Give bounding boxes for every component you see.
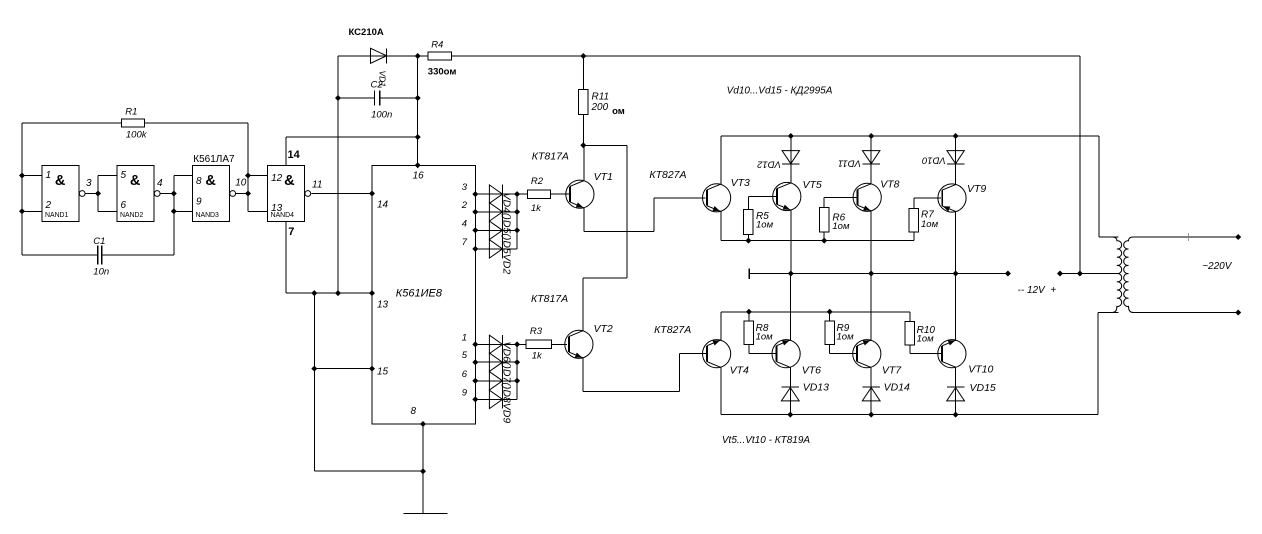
svg-text:&: & (284, 173, 295, 189)
svg-text:VT2: VT2 (594, 323, 613, 335)
wire -12V row with terminal tick (748, 269, 750, 279)
svg-text:1ом: 1ом (832, 221, 850, 232)
svg-text:1k: 1k (532, 350, 543, 361)
svg-text:6: 6 (121, 200, 127, 211)
svg-text:14: 14 (288, 149, 301, 161)
svg-text:VD14: VD14 (884, 382, 910, 394)
wire collector loop to VT2 (583, 144, 627, 146)
svg-text:6: 6 (462, 369, 468, 380)
svg-text:NAND3: NAND3 (196, 212, 220, 219)
svg-text:R11: R11 (592, 92, 610, 103)
svg-text:КТ817А: КТ817А (532, 151, 569, 163)
svg-text:3: 3 (462, 182, 468, 193)
svg-text:10: 10 (235, 178, 247, 189)
svg-text:8: 8 (196, 176, 202, 187)
node pin3 / wire NAND1 out (86, 193, 98, 195)
svg-text:9: 9 (196, 197, 202, 208)
svg-text:10n: 10n (93, 267, 109, 278)
wire IC pin13 ground row (286, 292, 372, 294)
wire VT9 base (914, 197, 941, 199)
transistor VT10 КТ819А (938, 340, 966, 368)
svg-text:15: 15 (377, 367, 389, 378)
wire VT6 collector up (789, 274, 791, 341)
svg-text:5: 5 (121, 170, 127, 181)
svg-text:2: 2 (461, 200, 468, 211)
svg-text:1ом: 1ом (756, 220, 774, 231)
wire secondary to ~220V terminals (1235, 234, 1241, 240)
diode VD10 (947, 151, 964, 164)
node pin10 / wire NAND3 out (236, 193, 248, 195)
svg-text:11: 11 (312, 180, 322, 191)
svg-text:VT5: VT5 (803, 179, 822, 191)
svg-text:~220V: ~220V (1202, 261, 1233, 272)
svg-text:VT4: VT4 (730, 365, 749, 377)
diode VD15 (947, 386, 965, 388)
svg-text:VT1: VT1 (594, 171, 613, 183)
wire VT5 collector (790, 136, 792, 184)
wire base row B (721, 240, 914, 242)
transistor VT3 КТ827А (703, 184, 731, 212)
diodes VD6...VD9 matrix on IC pins 1,5,6,9 (475, 343, 517, 345)
svg-text:R3: R3 (530, 326, 543, 337)
svg-text:7: 7 (462, 237, 468, 248)
svg-text:VD15: VD15 (970, 382, 996, 394)
transistor VT8 КТ819А (853, 183, 881, 211)
svg-text:VT7: VT7 (882, 365, 902, 377)
wire VT8 emitter (870, 211, 872, 274)
svg-text:Vt5...Vt10 - КТ819А: Vt5...Vt10 - КТ819А (722, 435, 810, 446)
svg-text:КТ827А: КТ827А (654, 324, 691, 336)
wire +12V top rail (451, 55, 1080, 57)
wire VT5 emitter (790, 210, 792, 274)
zener diode VD1 КС210А (338, 55, 418, 57)
resistor R8 1ом (748, 312, 750, 321)
resistor R4 330ом (418, 55, 428, 57)
wire VT5 base (748, 196, 776, 198)
svg-text:VT8: VT8 (880, 179, 899, 191)
ic U1 К561ИЕ8 (372, 165, 475, 424)
svg-text:VT9: VT9 (967, 183, 986, 195)
svg-text:100k: 100k (126, 130, 148, 141)
wire +12 rail A (upper collectors) (721, 135, 1099, 137)
transistor VT9 КТ819А (938, 184, 966, 212)
wire VDD rail to NAND4 (286, 136, 418, 138)
resistor R5 1ом (747, 197, 749, 210)
svg-text:&: & (55, 173, 66, 189)
wire IC pin15 row (314, 368, 372, 370)
wire VT10 collector up (955, 274, 957, 341)
svg-text:КТ817А: КТ817А (531, 293, 568, 305)
wire VT4 collector down to row E (720, 367, 722, 415)
wire left feedback vertical (21, 123, 23, 255)
nand gate NAND1 (К561ЛА7 pins 1,2->3) (42, 166, 79, 222)
svg-text:NAND2: NAND2 (120, 212, 144, 219)
ground symbol (404, 513, 448, 515)
svg-text:1: 1 (462, 332, 467, 343)
svg-text:&: & (130, 173, 141, 189)
svg-text:C2: C2 (371, 80, 384, 91)
svg-text:R1: R1 (125, 107, 137, 118)
diode VD13 (782, 386, 800, 388)
wire top-left vertical (zener anode) (337, 56, 339, 293)
svg-text:1k: 1k (531, 203, 542, 214)
wire NAND4 pin14 to VDD rail (285, 137, 287, 166)
nand gate NAND4 (pins 12,13->11) (268, 166, 305, 222)
wire VT3 emitter to row B (720, 211, 722, 241)
wire VT7 emitter to VD14 (870, 367, 872, 414)
transistor VT2 КТ817А (565, 330, 593, 358)
wire output row E (721, 414, 1098, 416)
capacitor C2 100n (338, 97, 375, 99)
svg-text:VT6: VT6 (802, 365, 821, 377)
diode VD12 (782, 151, 799, 164)
svg-text:R2: R2 (531, 176, 544, 187)
wire VT9 collector (955, 136, 957, 185)
svg-text:&: & (205, 173, 216, 189)
svg-text:12: 12 (271, 173, 283, 184)
wire VT1 emitter to VT3 base (583, 207, 585, 231)
transistor VT4 КТ827А (703, 340, 731, 368)
svg-text:7: 7 (288, 226, 294, 238)
wire NAND4 pin7 down (285, 221, 287, 293)
svg-text:К561ЛА7: К561ЛА7 (193, 154, 235, 165)
wire VT1 collector (583, 145, 585, 181)
svg-text:1ом: 1ом (756, 332, 774, 343)
transistor VT6 КТ819А (772, 340, 800, 368)
svg-text:VD10: VD10 (921, 154, 945, 165)
wire VT8 collector (870, 136, 872, 184)
svg-text:14: 14 (377, 200, 389, 211)
wire VT10 emitter to VD15 (955, 367, 957, 414)
transistor VT7 КТ819А (853, 340, 881, 368)
wire VT7 collector up (870, 274, 872, 341)
wire R4 feed down to -12V (1079, 56, 1081, 274)
diodes VD2...VD5 matrix on IC pins 3,2,4,7 (475, 193, 517, 195)
resistor R9 1ом (829, 312, 831, 321)
svg-text:8: 8 (411, 406, 417, 417)
svg-text:NAND4: NAND4 (271, 212, 295, 219)
resistor R1 (22, 122, 121, 124)
svg-text:VT3: VT3 (731, 177, 750, 189)
svg-text:1ом: 1ом (917, 334, 935, 345)
transistor VT5 КТ819А (773, 182, 801, 210)
transformer T1 secondary winding (1124, 237, 1133, 313)
svg-text:13: 13 (377, 300, 389, 311)
svg-text:330ом: 330ом (428, 67, 457, 78)
resistor R10 1ом (909, 312, 911, 322)
wire VT2 emitter to VT4 base (582, 358, 584, 392)
svg-text:1: 1 (46, 170, 52, 181)
svg-text:4: 4 (462, 218, 467, 229)
diode VD11 (863, 151, 880, 164)
svg-text:R4: R4 (431, 40, 443, 51)
svg-text:VD11: VD11 (838, 157, 861, 168)
svg-text:C1: C1 (93, 236, 105, 247)
svg-text:VT10: VT10 (968, 364, 993, 376)
svg-text:VD13: VD13 (803, 382, 829, 394)
svg-text:16: 16 (413, 171, 425, 182)
nand gate NAND3 (pins 8,9->10) (193, 166, 230, 222)
wire ground left vertical (313, 293, 315, 471)
svg-text:5: 5 (462, 350, 468, 361)
svg-text:NAND1: NAND1 (45, 212, 69, 219)
svg-text:К561ИЕ8: К561ИЕ8 (396, 288, 443, 300)
resistor R7 1ом (913, 198, 915, 209)
wire NAND4 out pin11 (311, 193, 372, 195)
svg-text:VD12: VD12 (757, 158, 781, 169)
wire -12V row right segment (1060, 273, 1118, 275)
diode VD14 (862, 386, 880, 388)
resistor R11 200ом (582, 56, 584, 90)
wire IC pin8 down (422, 424, 424, 514)
transistor VT1 КТ817А (566, 180, 594, 208)
svg-text:2: 2 (45, 200, 52, 211)
wire VDD vertical to IC pin16 (417, 56, 419, 165)
wire VT8 base (824, 196, 856, 198)
transformer T1 primary winding (1112, 237, 1121, 313)
svg-text:200: 200 (591, 102, 609, 113)
wire VT4 emitter up (720, 312, 722, 341)
svg-text:Vd10...Vd15 - КД2995А: Vd10...Vd15 - КД2995А (727, 86, 833, 97)
svg-text:4: 4 (157, 178, 163, 189)
svg-text:1ом: 1ом (921, 219, 939, 230)
svg-text:ом: ом (612, 106, 625, 117)
wire VT9 emitter (955, 211, 957, 273)
node pin4 / wire NAND2 out (161, 193, 174, 195)
svg-text:VD4()D5()D5VD2: VD4()D5()D5VD2 (501, 193, 513, 275)
svg-text:100n: 100n (371, 110, 392, 121)
svg-text:3: 3 (86, 178, 92, 189)
wire VT6 emitter to VD13 (789, 367, 791, 414)
wire R1 right vertical (247, 123, 249, 211)
resistor R2 1k (517, 193, 528, 195)
svg-text:9: 9 (462, 387, 468, 398)
resistor R3 1k (517, 343, 526, 345)
svg-text:VD6()D7()D8VD9: VD6()D7()D8VD9 (501, 342, 513, 424)
svg-text:КС210А: КС210А (349, 27, 384, 38)
svg-text:-- 12V +: -- 12V + (1018, 285, 1057, 296)
tick mark on 220V wire (1187, 233, 1189, 236)
wire base row D (721, 311, 910, 313)
resistor R6 1ом (823, 197, 825, 207)
svg-text:КТ827А: КТ827А (649, 169, 686, 181)
svg-text:1ом: 1ом (837, 332, 855, 343)
wire ground bottom loop (314, 470, 423, 472)
nand gate NAND2 (pins 5,6->4) (117, 166, 154, 222)
wire VT3 collector (720, 136, 722, 185)
capacitor C1 (22, 254, 98, 256)
